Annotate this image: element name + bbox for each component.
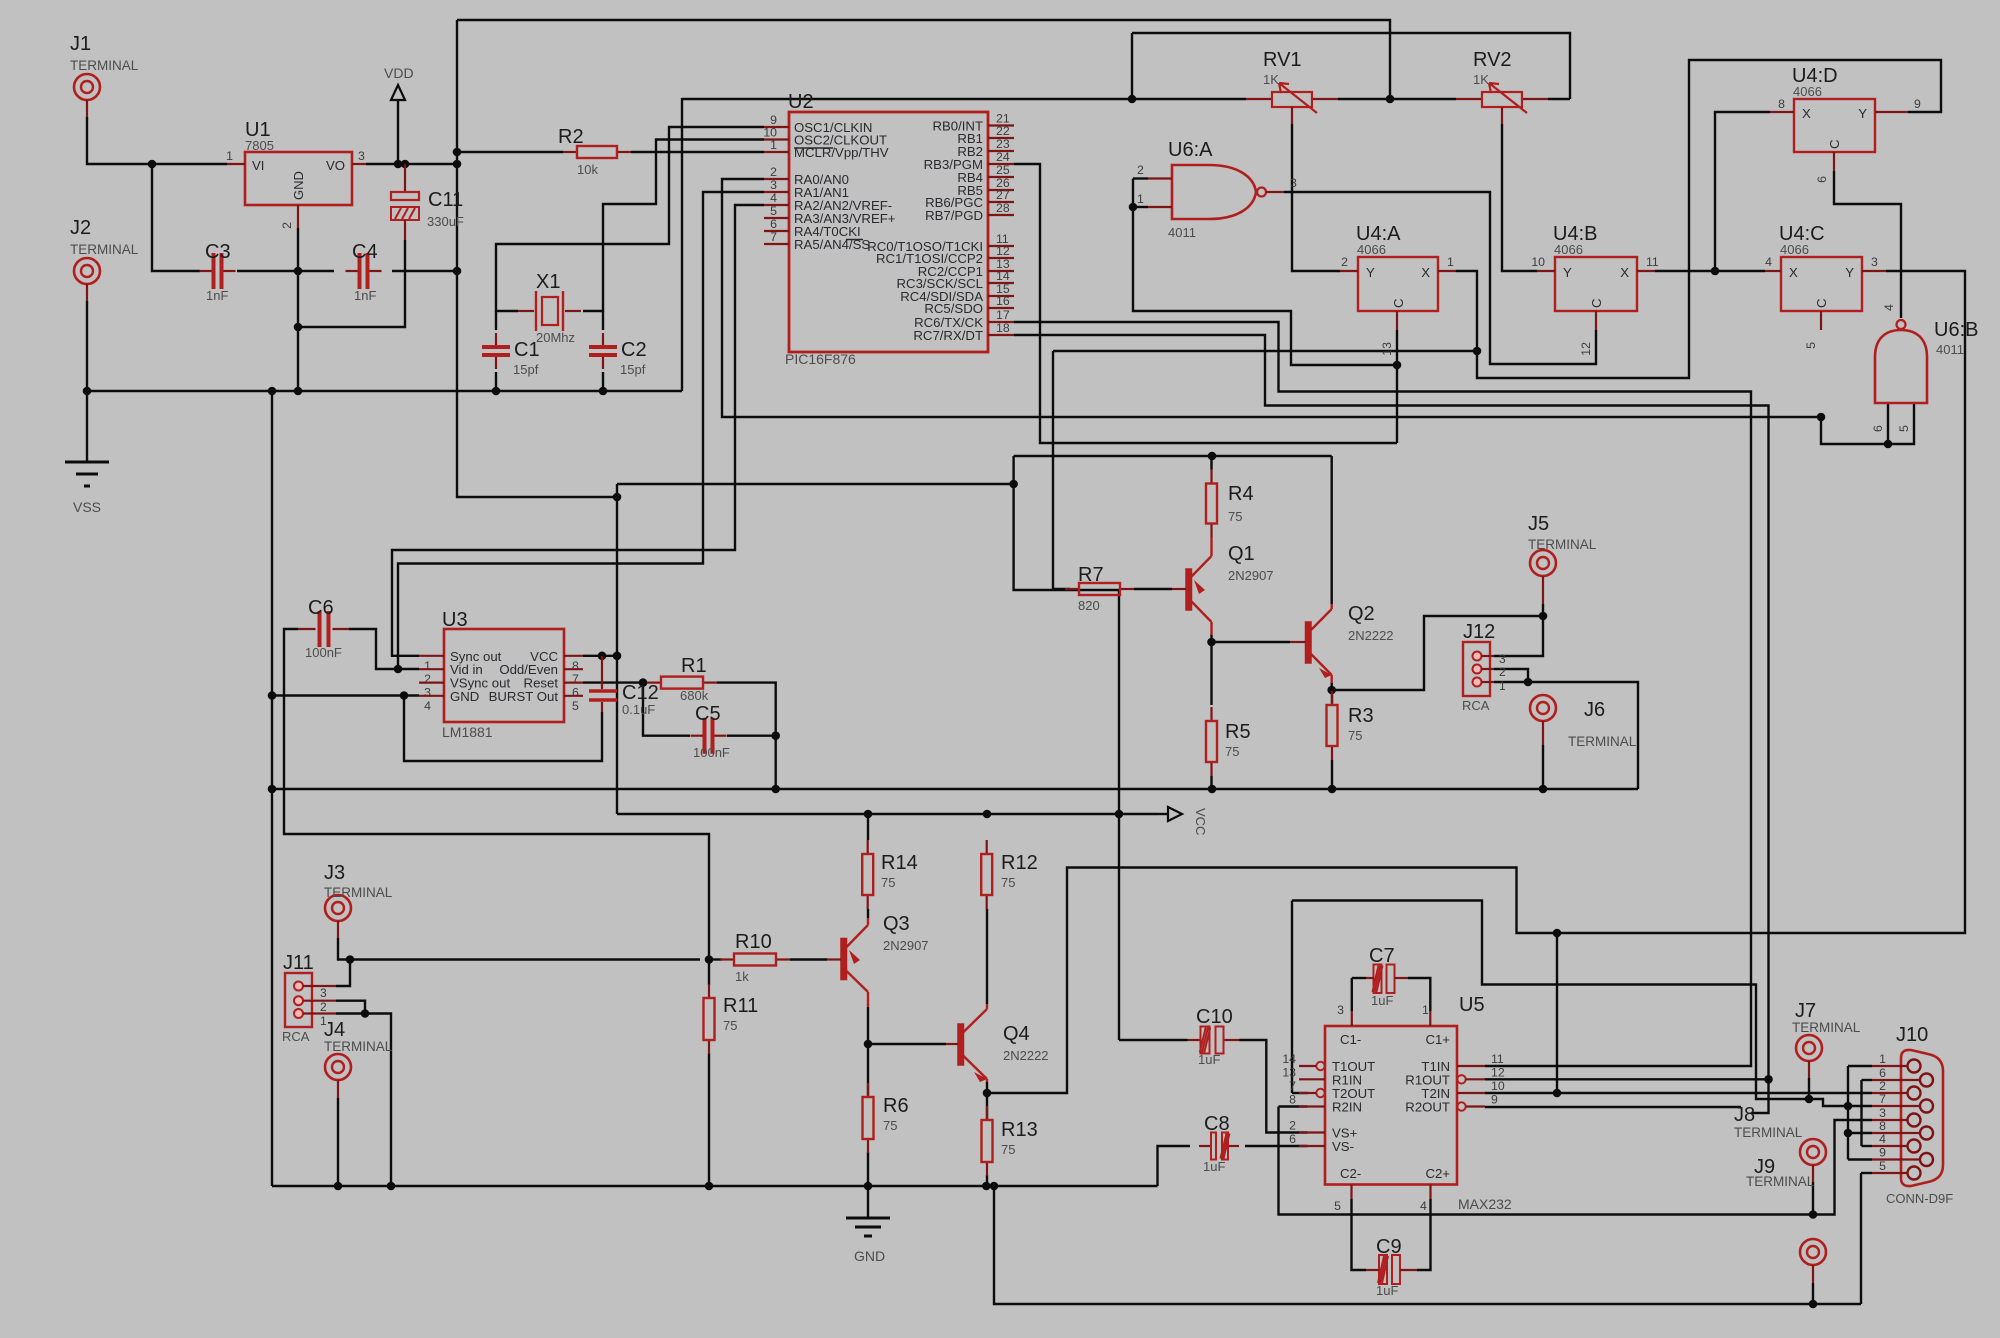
- svg-text:C1: C1: [514, 339, 540, 361]
- capacitor C8 1uF polarized: [1199, 1145, 1210, 1147]
- svg-text:R7: R7: [1078, 564, 1104, 586]
- svg-text:5: 5: [770, 204, 777, 218]
- svg-text:14: 14: [996, 269, 1010, 283]
- capacitor C10 1uF polarized: [1188, 1039, 1201, 1041]
- svg-text:PIC16F876: PIC16F876: [785, 351, 856, 367]
- svg-text:2N2907: 2N2907: [883, 938, 929, 953]
- svg-text:15pf: 15pf: [620, 362, 646, 377]
- wire U6:A tied inputs: [1133, 177, 1148, 179]
- svg-text:4066: 4066: [1780, 242, 1809, 257]
- capacitor C3 1nF: [200, 270, 213, 272]
- wire R14 top to VCC rail: [867, 816, 869, 840]
- svg-text:75: 75: [1001, 875, 1015, 890]
- svg-text:9: 9: [1914, 97, 1921, 111]
- svg-text:TERMINAL: TERMINAL: [1528, 537, 1597, 552]
- svg-text:9: 9: [1879, 1146, 1886, 1160]
- svg-text:8: 8: [1879, 1119, 1886, 1133]
- wire U4:D X input: [1715, 112, 1770, 271]
- terminal J2: [74, 258, 100, 284]
- resistor R6 75: [867, 1083, 869, 1097]
- svg-text:C: C: [1814, 298, 1829, 308]
- wire C2 column: [602, 311, 604, 330]
- svg-text:J12: J12: [1463, 621, 1495, 643]
- svg-text:4066: 4066: [1357, 242, 1386, 257]
- svg-text:C: C: [1391, 298, 1406, 308]
- svg-text:RCA: RCA: [1462, 698, 1490, 713]
- terminal J5: [1530, 550, 1556, 576]
- svg-text:4: 4: [1765, 255, 1772, 269]
- svg-text:1: 1: [770, 138, 777, 152]
- svg-text:6: 6: [770, 217, 777, 231]
- wire J5 stub lower: [1542, 604, 1544, 616]
- wire C8 left to bottom rail corner: [1158, 1146, 1191, 1186]
- wire ground rail y=99 from X1 branch to RV1: [682, 98, 1246, 100]
- svg-text:C9: C9: [1376, 1236, 1402, 1258]
- resistor R14 75: [867, 840, 869, 854]
- connector J11 RCA: [285, 973, 312, 1027]
- svg-text:U3: U3: [442, 609, 468, 631]
- svg-text:6: 6: [1815, 176, 1829, 183]
- svg-text:13: 13: [1282, 1065, 1296, 1079]
- svg-text:3: 3: [1290, 176, 1297, 190]
- svg-text:VDD: VDD: [384, 65, 414, 81]
- terminal J9: [1800, 1139, 1826, 1165]
- svg-text:12: 12: [1579, 342, 1593, 356]
- capacitor C6 100nF: [298, 628, 316, 630]
- svg-text:7: 7: [1879, 1092, 1886, 1106]
- svg-text:75: 75: [881, 875, 895, 890]
- rheostat RV2 1K: [1456, 98, 1482, 100]
- capacitor C12 0.1uF: [601, 656, 603, 689]
- wire ground column x=272: [271, 391, 273, 1186]
- capacitor C5 100nF: [691, 735, 704, 737]
- svg-text:R10: R10: [735, 931, 772, 953]
- transistor Q4 2N2222: [958, 1024, 964, 1065]
- svg-text:GND: GND: [450, 689, 479, 704]
- capacitor C4 1nF: [346, 270, 359, 272]
- svg-text:R11: R11: [723, 995, 758, 1017]
- svg-text:RV2: RV2: [1473, 49, 1512, 71]
- terminal below J9: [1800, 1239, 1826, 1265]
- svg-text:6: 6: [572, 686, 579, 700]
- wire video node to R7 and U4:A X: [1053, 350, 1477, 352]
- svg-text:3: 3: [1499, 652, 1506, 666]
- svg-text:2: 2: [1499, 665, 1506, 679]
- svg-text:RC7/RX/DT: RC7/RX/DT: [913, 328, 983, 343]
- svg-text:TERMINAL: TERMINAL: [324, 1039, 393, 1054]
- svg-text:Q3: Q3: [883, 913, 910, 935]
- svg-text:TERMINAL: TERMINAL: [70, 242, 139, 257]
- svg-text:2: 2: [1137, 163, 1144, 177]
- svg-text:6: 6: [1289, 1132, 1296, 1146]
- svg-text:R1: R1: [681, 655, 707, 677]
- regulator U1 7805: [245, 152, 352, 205]
- wire J12 pins 1+2 to ground loop: [1494, 669, 1528, 682]
- svg-text:680k: 680k: [680, 688, 709, 703]
- wire J7 stub lower: [1808, 1078, 1810, 1099]
- wire C4 right to VDD column: [392, 270, 457, 272]
- wire U1 VO to VDD arrow and column: [366, 163, 457, 165]
- wire C7 charge-pump loop: [1351, 978, 1353, 1011]
- wire Q2 collector drop: [1330, 456, 1332, 604]
- svg-text:7805: 7805: [245, 138, 274, 153]
- wire U4:C Y output to Q4 video node: [1557, 271, 1965, 933]
- wire R6 bottom to bottom rail: [867, 1152, 869, 1186]
- svg-text:C: C: [1589, 298, 1604, 308]
- svg-text:U6:B: U6:B: [1934, 319, 1978, 341]
- wire bottom ground rail: [272, 1185, 1158, 1187]
- svg-text:4066: 4066: [1554, 242, 1583, 257]
- svg-text:330uF: 330uF: [427, 214, 464, 229]
- microcontroller U2 PIC16F876: [789, 112, 988, 352]
- wire RA0 to U4:C control bus y=417: [722, 179, 1821, 417]
- resistor R4 75: [1210, 470, 1212, 484]
- wire VDD to R4 and Q2 collector y=456: [1014, 455, 1332, 457]
- svg-text:11: 11: [1646, 255, 1659, 269]
- wire C10 left to VCC rail column: [1119, 1039, 1188, 1041]
- svg-text:C5: C5: [695, 703, 721, 725]
- svg-text:Q1: Q1: [1228, 543, 1255, 565]
- svg-text:R2IN: R2IN: [1332, 1100, 1362, 1115]
- svg-text:TERMINAL: TERMINAL: [1734, 1125, 1803, 1140]
- svg-text:7: 7: [1289, 1079, 1296, 1093]
- wire U4:B X to U4:C X: [1655, 270, 1765, 272]
- svg-text:10: 10: [1491, 1079, 1505, 1093]
- resistor R3 75: [1331, 691, 1333, 705]
- svg-text:75: 75: [723, 1018, 737, 1033]
- wire C6 left to video-in node: [284, 629, 709, 960]
- svg-text:J4: J4: [324, 1019, 345, 1041]
- svg-text:RCA: RCA: [282, 1029, 310, 1044]
- wire RA2 to LM1881 Sync-out column: [392, 205, 764, 656]
- svg-text:3: 3: [424, 686, 431, 700]
- transistor Q2 2N2222: [1306, 622, 1312, 663]
- svg-text:5: 5: [1879, 1159, 1886, 1173]
- svg-text:J1: J1: [70, 33, 91, 55]
- svg-text:1: 1: [424, 659, 431, 673]
- wire R14 bottom / Q3 emitter: [867, 909, 869, 918]
- wire RC7/RX to MAX232 R1OUT: [1014, 335, 1769, 1113]
- svg-text:C7: C7: [1369, 945, 1395, 967]
- svg-text:4: 4: [424, 699, 431, 713]
- svg-text:J5: J5: [1528, 513, 1549, 535]
- analog switch U4:D 4066: [1794, 99, 1875, 152]
- wire U1 GND down to VSS rail: [297, 228, 299, 391]
- wire Q3 collector down to Q4 base node: [868, 1007, 946, 1044]
- svg-text:1K: 1K: [1473, 72, 1489, 87]
- power flag VCC arrow: [1158, 813, 1168, 815]
- svg-text:1K: 1K: [1263, 72, 1279, 87]
- wire J11 pins 1+2 to bottom rail: [336, 1001, 365, 1014]
- resistor R11 75: [708, 984, 710, 998]
- svg-text:75: 75: [1228, 509, 1242, 524]
- wire R5 bottom to ground rail: [1210, 776, 1212, 789]
- analog switch U4:B 4066: [1555, 257, 1637, 311]
- wire RB3/PGM to switch-control node: [1014, 164, 1397, 443]
- resistor R5 75: [1210, 707, 1212, 721]
- svg-text:3: 3: [770, 178, 777, 192]
- resistor R7 820: [1065, 588, 1079, 590]
- svg-text:R13: R13: [1001, 1119, 1038, 1141]
- wire VDD riser x=1013.6: [1014, 456, 1119, 1040]
- svg-text:R6: R6: [883, 1095, 909, 1117]
- wire bottom rail drop to DB9 ground line: [994, 1186, 1861, 1304]
- ground flag VSS: [65, 462, 109, 486]
- svg-text:7: 7: [770, 230, 777, 244]
- svg-text:4: 4: [1420, 1199, 1427, 1213]
- wire RV1 wiper to U4:A Y: [1292, 124, 1340, 271]
- wire DB9 pin5 to ground line: [1861, 1172, 1872, 1174]
- svg-text:5: 5: [572, 699, 579, 713]
- svg-text:1nF: 1nF: [354, 288, 376, 303]
- svg-text:MAX232: MAX232: [1458, 1196, 1512, 1212]
- transistor Q3 2N2907: [841, 939, 847, 980]
- wire LM1881 ground line: [272, 694, 419, 696]
- wire J3 to video input row: [338, 938, 700, 960]
- svg-text:18: 18: [996, 321, 1010, 335]
- svg-text:Q2: Q2: [1348, 603, 1375, 625]
- wire J2 to VSS rail: [86, 301, 88, 391]
- wire T2OUT to J7 / DB9 handshake chain: [1292, 1092, 1308, 1094]
- svg-text:C1-: C1-: [1340, 1032, 1361, 1047]
- svg-text:X: X: [1789, 265, 1798, 280]
- wire OSC1 to X1 left: [496, 127, 764, 311]
- svg-text:R4: R4: [1228, 483, 1254, 505]
- analog switch U4:A 4066: [1358, 257, 1438, 311]
- svg-text:1uF: 1uF: [1376, 1283, 1398, 1298]
- svg-text:3: 3: [1871, 255, 1878, 269]
- svg-text:VSS: VSS: [73, 499, 101, 515]
- wire C5 parallel loop: [643, 683, 690, 736]
- nand gate U6:B 4011: [1875, 330, 1927, 403]
- svg-text:75: 75: [1001, 1142, 1015, 1157]
- svg-text:8: 8: [1778, 97, 1785, 111]
- svg-text:J11: J11: [283, 952, 314, 974]
- svg-text:2N2222: 2N2222: [1003, 1048, 1049, 1063]
- svg-text:C6: C6: [308, 597, 334, 619]
- wire VSS ground stub: [86, 391, 88, 462]
- svg-text:TERMINAL: TERMINAL: [70, 58, 139, 73]
- svg-text:1: 1: [1422, 1003, 1429, 1017]
- wire R11 column: [708, 960, 710, 986]
- wire U4:A X to U4:D Y loop: [1456, 60, 1941, 378]
- svg-text:2N2907: 2N2907: [1228, 568, 1274, 583]
- svg-text:5: 5: [1334, 1199, 1341, 1213]
- svg-text:16: 16: [996, 294, 1010, 308]
- svg-text:5: 5: [1804, 342, 1818, 349]
- resistor R13 75: [986, 1106, 988, 1120]
- svg-text:10: 10: [1531, 255, 1545, 269]
- wire C3 to C4 via GND node: [237, 270, 334, 272]
- wire R10 left: [709, 958, 722, 960]
- wire J11 pin3 riser: [336, 960, 350, 987]
- transistor Q1 2N2907: [1186, 569, 1192, 610]
- wire VCC rail y=814: [617, 813, 1158, 815]
- wire C11 bottom loop: [298, 240, 405, 327]
- svg-text:C3: C3: [205, 241, 231, 263]
- resistor R1 680k: [647, 681, 661, 683]
- svg-text:75: 75: [883, 1118, 897, 1133]
- junction dots: [453, 148, 462, 157]
- wire ground loop under U3 to C12: [404, 696, 602, 762]
- svg-text:Y: Y: [1845, 265, 1854, 280]
- wire Reset to R1: [583, 681, 643, 683]
- wire RC6/TX to MAX232 T1IN: [1014, 322, 1751, 1066]
- svg-text:X: X: [1421, 265, 1430, 280]
- svg-text:J10: J10: [1896, 1024, 1928, 1046]
- wire R2 to MCLR: [457, 151, 563, 153]
- wire C8 right to VS-: [1245, 1145, 1308, 1147]
- wire ground rail y=789: [272, 788, 1638, 790]
- wire node to C3: [152, 164, 200, 271]
- wire U4:D control to U6:B output: [1834, 171, 1901, 318]
- svg-text:0.1uF: 0.1uF: [622, 702, 655, 717]
- svg-text:1uF: 1uF: [1203, 1159, 1225, 1174]
- terminal J4: [325, 1054, 351, 1080]
- svg-text:C11: C11: [428, 189, 463, 211]
- svg-text:BURST Out: BURST Out: [489, 689, 559, 704]
- svg-text:CONN-D9F: CONN-D9F: [1886, 1191, 1953, 1206]
- svg-text:20Mhz: 20Mhz: [536, 330, 575, 345]
- svg-text:Y: Y: [1858, 106, 1867, 121]
- svg-text:3: 3: [358, 149, 365, 163]
- svg-text:1: 1: [1879, 1052, 1886, 1066]
- crystal X1 20Mhz: [518, 310, 534, 312]
- svg-text:5: 5: [1897, 425, 1911, 432]
- svg-text:3: 3: [1879, 1106, 1886, 1120]
- svg-text:U6:A: U6:A: [1168, 139, 1213, 161]
- wire DB9 pins 6-4 tie column: [1860, 1080, 1862, 1146]
- svg-text:R14: R14: [881, 852, 918, 874]
- svg-text:3: 3: [1337, 1003, 1344, 1017]
- svg-text:J8: J8: [1734, 1104, 1755, 1126]
- svg-text:3: 3: [320, 986, 327, 1000]
- svg-text:J2: J2: [70, 217, 91, 239]
- resistor R12 75: [986, 840, 988, 854]
- capacitor C1 15pf: [495, 333, 497, 346]
- svg-text:2: 2: [280, 222, 294, 229]
- svg-text:VO: VO: [326, 158, 345, 173]
- svg-text:U2: U2: [788, 91, 814, 113]
- wire U6:A node vertical to ground rail: [1131, 33, 1133, 99]
- wire top power rail to RV junction: [457, 20, 1390, 99]
- wire R2IN to DB9 pin3 / J9 line: [1279, 1105, 1308, 1107]
- svg-text:2: 2: [770, 165, 777, 179]
- svg-text:25: 25: [996, 163, 1010, 177]
- wire VDD arrow stem: [397, 100, 399, 164]
- svg-text:1uF: 1uF: [1198, 1052, 1220, 1067]
- svg-text:Y: Y: [1366, 265, 1375, 280]
- svg-text:C10: C10: [1196, 1006, 1233, 1028]
- wire RV2 right segment: [1548, 98, 1570, 100]
- svg-text:R12: R12: [1001, 852, 1038, 874]
- capacitor C7 1uF polarized: [1374, 965, 1382, 994]
- svg-text:X1: X1: [536, 271, 560, 293]
- svg-text:75: 75: [1348, 728, 1362, 743]
- wire R2OUT row to J8: [1485, 1106, 1741, 1108]
- wire Q1 emitter to Q2 base and R5: [1210, 635, 1212, 705]
- svg-text:RB7/PGD: RB7/PGD: [925, 208, 983, 223]
- svg-text:J3: J3: [324, 862, 345, 884]
- svg-text:RV1: RV1: [1263, 49, 1302, 71]
- wire VDD column x=617: [616, 484, 618, 814]
- svg-text:TERMINAL: TERMINAL: [1746, 1174, 1815, 1189]
- wire VSS rail: [87, 390, 682, 392]
- svg-text:4011: 4011: [1936, 342, 1964, 357]
- wire spare terminal stub to ground line: [1812, 1283, 1814, 1304]
- wire Q3 node to R6: [867, 1044, 869, 1097]
- svg-text:12: 12: [1491, 1065, 1505, 1079]
- svg-text:C1+: C1+: [1425, 1032, 1450, 1047]
- terminal J6: [1530, 695, 1556, 721]
- wire U6:A output to U4:B control: [1284, 192, 1596, 364]
- svg-text:VI: VI: [252, 158, 264, 173]
- wire J9 stub lower: [1812, 1182, 1814, 1215]
- svg-text:C4: C4: [352, 241, 378, 263]
- svg-text:TERMINAL: TERMINAL: [1568, 734, 1637, 749]
- svg-text:2: 2: [424, 672, 431, 686]
- resistor R10 1k: [720, 958, 734, 960]
- svg-text:9: 9: [1491, 1093, 1498, 1107]
- svg-text:1: 1: [1137, 192, 1144, 206]
- svg-text:24: 24: [996, 150, 1010, 164]
- svg-text:TERMINAL: TERMINAL: [324, 885, 393, 900]
- svg-text:17: 17: [996, 308, 1010, 322]
- svg-text:4: 4: [1882, 304, 1896, 311]
- wire VDD column x=457 down to VCC feed: [457, 20, 617, 497]
- svg-text:14: 14: [1282, 1052, 1296, 1066]
- wire RV1 to RV2 segment: [1338, 98, 1456, 100]
- sync separator U3 LM1881: [444, 629, 564, 722]
- svg-text:C: C: [1827, 139, 1842, 149]
- svg-text:VCC: VCC: [1193, 808, 1208, 835]
- terminal J1: [74, 74, 100, 100]
- svg-text:4: 4: [770, 191, 777, 205]
- svg-text:C2-: C2-: [1340, 1166, 1361, 1181]
- svg-text:1k: 1k: [735, 969, 749, 984]
- svg-text:4066: 4066: [1793, 84, 1822, 99]
- svg-text:C2+: C2+: [1425, 1166, 1450, 1181]
- wire R10 to Q3 base: [790, 958, 827, 960]
- svg-text:1: 1: [1499, 679, 1506, 693]
- svg-text:VS-: VS-: [1332, 1139, 1354, 1154]
- wire Q4 node branch to T2IN: [1556, 933, 1558, 1093]
- svg-text:2N2222: 2N2222: [1348, 628, 1394, 643]
- svg-text:Y: Y: [1563, 265, 1572, 280]
- svg-text:J6: J6: [1584, 699, 1605, 721]
- wire RA1 to LM1881 Vid-in column: [398, 192, 764, 669]
- svg-text:U5: U5: [1459, 994, 1485, 1016]
- wire C9 charge-pump loop: [1352, 1199, 1367, 1270]
- connector J12 RCA: [1463, 642, 1490, 696]
- analog switch U4:C 4066: [1781, 257, 1862, 311]
- svg-text:22: 22: [996, 124, 1010, 138]
- wire R1 right to ground rail: [717, 683, 776, 789]
- svg-text:1: 1: [226, 149, 233, 163]
- svg-text:GND: GND: [854, 1248, 885, 1264]
- wire J1 to U1 VI: [87, 117, 227, 164]
- svg-text:28: 28: [996, 201, 1010, 215]
- svg-text:2: 2: [1289, 1119, 1296, 1133]
- wire R12 bottom to Q4 collector: [986, 909, 988, 1004]
- wire Q2 emitter to J5/J12 video out: [1332, 616, 1543, 690]
- svg-text:J7: J7: [1795, 1000, 1816, 1022]
- power flag VDD: [391, 85, 405, 100]
- wire U6:B input legs: [1887, 403, 1889, 444]
- terminal J7: [1796, 1035, 1822, 1061]
- svg-text:820: 820: [1078, 598, 1100, 613]
- connector J10 CONN-D9F: [1901, 1050, 1943, 1186]
